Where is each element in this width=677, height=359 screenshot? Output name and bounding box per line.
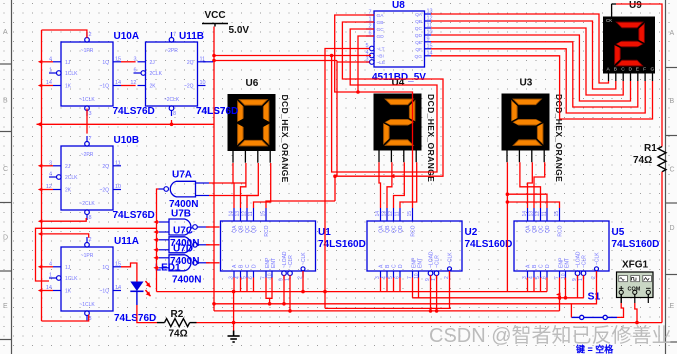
svg-text:14: 14 xyxy=(522,211,528,217)
svg-text:4: 4 xyxy=(49,172,52,178)
svg-text:~2Q: ~2Q xyxy=(99,188,109,194)
svg-text:CSDN @智者知已反修善业: CSDN @智者知已反修善业 xyxy=(429,324,672,347)
svg-text:QB: QB xyxy=(385,225,391,233)
wire: U9 CK pin up (black) then red across top to right rail x=662 xyxy=(611,4,613,17)
svg-text:D: D xyxy=(398,264,404,268)
NAND gate U7C 7400N xyxy=(159,237,210,253)
wire: chain 2Q node down x=337 to y=174.5 across to x=433 up to y=85 left to U8 GB xyxy=(337,22,443,176)
svg-text:14: 14 xyxy=(229,211,235,217)
wire: U4 display pins down to U2 inputs xyxy=(379,162,381,208)
wire: U10A pin3 down to U10B pin7 xyxy=(86,109,88,134)
svg-text:F: F xyxy=(643,67,646,73)
wire: flip-flop input stubs to left rail with arrows xyxy=(42,61,54,63)
svg-text:GA: GA xyxy=(377,13,385,19)
wire: U1 RCO up and right to drop x=335 xyxy=(266,201,335,208)
svg-text:R2: R2 xyxy=(171,309,184,320)
arrow marker on ENP riser xyxy=(557,296,562,300)
svg-text:U5: U5 xyxy=(612,227,625,238)
wire: LED cathode down to R2 xyxy=(137,305,157,323)
wire: R1 bottom to bottom bus xyxy=(661,176,663,323)
wire: ground tap on bottom bus xyxy=(233,323,235,331)
svg-text:1CLK: 1CLK xyxy=(65,276,78,282)
wire: U11B pin8 drop to bus y=124.3 xyxy=(171,120,173,124)
display U4 DCD_HEX_ORANGE showing 2 xyxy=(374,94,422,163)
svg-text:U6: U6 xyxy=(246,78,259,89)
wire: XFG1 + terminal down to switch right end xyxy=(620,294,622,303)
svg-text:ENT: ENT xyxy=(271,258,277,268)
wire: U8 QB to U9 segment B xyxy=(431,21,616,89)
svg-text:C: C xyxy=(539,264,545,268)
svg-text:14: 14 xyxy=(375,211,381,217)
NAND gate U7D 7400N xyxy=(159,255,210,271)
wire: U5 RCO left tap xyxy=(507,202,559,208)
svg-text:RCO: RCO xyxy=(558,225,564,236)
wire: drop x=335 from chain y=176.2 to RCO line xyxy=(334,176,336,201)
counter U1 74LS160D xyxy=(221,208,316,281)
LED LED1 symbol xyxy=(130,281,150,305)
svg-text:1: 1 xyxy=(49,273,52,279)
NAND gate U7A 7400N (mirrored) xyxy=(159,181,210,197)
svg-text:QC: QC xyxy=(392,225,398,233)
svg-text:U7C: U7C xyxy=(173,226,193,237)
svg-text:14: 14 xyxy=(115,285,121,291)
svg-text:U8: U8 xyxy=(392,0,405,11)
svg-text:10: 10 xyxy=(200,80,206,86)
svg-text:VCC: VCC xyxy=(204,10,225,21)
svg-text:15: 15 xyxy=(407,211,413,217)
svg-text:~2PR: ~2PR xyxy=(81,152,94,158)
wire: chain VCC node down x=331.6 to y=169 across to x=440 up to y=79 left to U8 GC xyxy=(332,29,437,172)
svg-text:6: 6 xyxy=(133,68,136,74)
svg-text:ENT: ENT xyxy=(565,258,571,268)
svg-text:1: 1 xyxy=(49,68,52,74)
svg-text:2: 2 xyxy=(89,32,92,38)
svg-text:B: B xyxy=(670,98,675,105)
svg-text:~2Q: ~2Q xyxy=(184,84,194,90)
svg-text:2CLK: 2CLK xyxy=(150,71,163,77)
svg-text:QD: QD xyxy=(252,225,258,233)
wire: bus y=297.8 (U2 ENP/ENT to U5 LOAD/CLR) xyxy=(413,297,584,299)
svg-text:~1PR: ~1PR xyxy=(81,48,94,54)
svg-text:C: C xyxy=(621,67,625,73)
svg-text:~2CLK: ~2CLK xyxy=(79,201,95,207)
wire: U10A 1Q to U11B 2J xyxy=(121,61,136,63)
wire: U6 display pins down to U1 inputs (crossover jogs) xyxy=(233,163,234,208)
svg-text:~2CLK: ~2CLK xyxy=(164,97,180,103)
flip-flop U10A 74LS76D xyxy=(46,32,121,117)
wire: U8 QD to U9 segment D xyxy=(431,35,631,101)
wire: U7A output rail left to x=35.5 then down to U11A clock xyxy=(36,228,157,281)
svg-text:7: 7 xyxy=(89,136,92,142)
wire: bus y=310.9 xyxy=(214,310,560,312)
svg-text:U7B: U7B xyxy=(171,209,191,220)
svg-text:A: A xyxy=(670,30,675,37)
wire: U3 display pins down to U5 inputs xyxy=(506,162,508,291)
wire: U8 GD left down to y=92 junction xyxy=(358,36,374,92)
IC U8 4511BD_5V BCD-to-7seg decoder xyxy=(365,9,432,68)
NAND gate U7B 7400N xyxy=(159,219,210,235)
svg-text:S1: S1 xyxy=(588,291,601,303)
svg-text:74LS160D: 74LS160D xyxy=(465,239,513,250)
switch S1 (space key) xyxy=(571,315,617,319)
svg-text:RCO: RCO xyxy=(264,225,270,236)
wire: bus y=124.3 from arrow to rail x=214 xyxy=(37,123,215,125)
wires: U1 bottom pins to buses xyxy=(233,278,235,292)
svg-text:GC: GC xyxy=(377,27,385,33)
svg-text:U10A: U10A xyxy=(114,31,140,42)
counter U5 74LS160D xyxy=(514,208,609,281)
wire: gate input stubs to rail x=156.5 with arrows xyxy=(157,221,159,223)
svg-text:~1Q: ~1Q xyxy=(99,289,109,295)
sheet border right xyxy=(666,0,677,354)
wire: node right to rail x=337 (U8 ~LE net) xyxy=(214,60,337,62)
svg-text:XFG1: XFG1 xyxy=(622,260,649,271)
wire: U11B 2Q stub extension to rail xyxy=(203,61,213,63)
svg-text:~BI: ~BI xyxy=(377,54,384,60)
counter U2 74LS160D xyxy=(367,208,462,281)
svg-text:A: A xyxy=(3,29,8,36)
wire: VCC rail x=214 down to bus y=310.9 xyxy=(213,27,215,311)
wire: rail to U11A preset pin 2 with arrow xyxy=(42,234,89,238)
svg-text:8: 8 xyxy=(89,215,92,221)
svg-text:B: B xyxy=(3,98,8,105)
svg-text:74Ω: 74Ω xyxy=(169,329,188,340)
svg-text:QB: QB xyxy=(415,19,422,25)
svg-text:QE: QE xyxy=(415,40,422,46)
svg-text:GD: GD xyxy=(377,34,385,40)
svg-text:U11A: U11A xyxy=(114,236,139,247)
svg-text:15: 15 xyxy=(554,211,560,217)
svg-text:74LS76D: 74LS76D xyxy=(113,210,155,221)
wire: U7A output rail x=156.5 down the gate column to bus y=291.6 xyxy=(157,189,159,292)
svg-text:~LT: ~LT xyxy=(377,47,385,53)
svg-text:U7D: U7D xyxy=(173,244,193,255)
wire: U7A input wires right to display nets xyxy=(209,182,246,184)
ground symbol xyxy=(228,331,240,343)
svg-text:74Ω: 74Ω xyxy=(633,155,652,166)
wire: U8 QA to U9 segment A xyxy=(431,14,609,83)
svg-text:2Q: 2Q xyxy=(187,60,194,66)
svg-text:QB: QB xyxy=(532,225,538,233)
svg-text:1Q: 1Q xyxy=(102,60,109,66)
svg-text:LED1: LED1 xyxy=(155,263,181,274)
svg-text:D: D xyxy=(3,235,8,242)
wire: U11A 1Q to LED anode (up-step) xyxy=(121,263,137,282)
svg-text:QC: QC xyxy=(415,26,423,32)
svg-text:C: C xyxy=(3,166,8,173)
wire: bus y=303.8 xyxy=(214,303,571,305)
svg-text:74LS76D: 74LS76D xyxy=(113,106,155,117)
wire: U8 GA left down x=334.7 across y=92 down x=412.5 to U2 RCO xyxy=(335,15,413,208)
svg-text:QC: QC xyxy=(245,225,251,233)
svg-text:1J: 1J xyxy=(65,60,71,66)
resistor R1 74ohm xyxy=(658,142,666,176)
svg-text:QA: QA xyxy=(232,225,238,233)
wire: bottom bus y=322.6 from R2 to right rail xyxy=(197,322,663,324)
wire: U8 QF to U9 segment F xyxy=(431,49,645,113)
wire: XFG1 COM terminal down to bottom bus xyxy=(635,303,637,323)
svg-text:11: 11 xyxy=(395,211,401,216)
svg-text:QD: QD xyxy=(398,225,404,233)
svg-text:~1CLK: ~1CLK xyxy=(79,302,95,308)
svg-text:7: 7 xyxy=(173,32,176,38)
svg-text:15: 15 xyxy=(261,211,267,217)
svg-text:7400N: 7400N xyxy=(172,275,201,286)
svg-text:12: 12 xyxy=(535,211,541,217)
svg-text:~1Q: ~1Q xyxy=(99,84,109,90)
svg-text:D: D xyxy=(545,264,551,268)
svg-text:~CLK: ~CLK xyxy=(301,252,307,265)
svg-text:8: 8 xyxy=(173,111,176,117)
svg-text:11: 11 xyxy=(542,211,548,216)
svg-text:E: E xyxy=(670,303,675,310)
svg-text:1CLK: 1CLK xyxy=(65,71,78,77)
wire: U8 QG to U9 segment G xyxy=(431,56,653,119)
svg-text:11: 11 xyxy=(115,160,121,166)
flip-flop U11B 74LS76D xyxy=(130,32,205,117)
svg-text:~2PR: ~2PR xyxy=(165,48,178,54)
display U9 red 7-segment showing 2 xyxy=(603,17,655,82)
svg-text:2K: 2K xyxy=(65,188,72,194)
svg-text:GB: GB xyxy=(377,20,384,26)
svg-text:15: 15 xyxy=(115,261,121,267)
svg-text:9: 9 xyxy=(427,36,430,42)
svg-text:RCO: RCO xyxy=(411,225,417,236)
svg-text:11: 11 xyxy=(248,211,254,216)
svg-text:~CLK: ~CLK xyxy=(595,252,601,265)
svg-text:1Q: 1Q xyxy=(102,265,109,271)
display U6 DCD_HEX_ORANGE showing 0 xyxy=(228,94,276,163)
svg-text:2CLK: 2CLK xyxy=(65,175,78,181)
svg-text:~CLR: ~CLR xyxy=(288,255,294,268)
wire: U10B pin8 down-left to rail with arrow xyxy=(42,218,87,221)
svg-text:QA: QA xyxy=(379,225,385,233)
svg-text:D: D xyxy=(252,264,258,268)
svg-text:74LS76D: 74LS76D xyxy=(196,106,238,117)
svg-text:12: 12 xyxy=(388,211,394,217)
svg-text:13: 13 xyxy=(529,211,535,217)
svg-text:D: D xyxy=(670,225,675,232)
svg-text:74LS160D: 74LS160D xyxy=(612,239,660,250)
svg-text:2Q: 2Q xyxy=(102,164,109,170)
svg-text:DCD_HEX_ORANGE: DCD_HEX_ORANGE xyxy=(280,95,290,183)
svg-text:QF: QF xyxy=(415,47,422,53)
svg-text:B: B xyxy=(614,67,617,73)
wires: U5 bottom pins to buses xyxy=(527,278,529,292)
wire: U8 ~LE pin left to rail x=337 xyxy=(337,61,370,63)
svg-text:2: 2 xyxy=(89,237,92,243)
wire: U5 CLK down-left to switch riser xyxy=(571,271,596,317)
svg-text:QA: QA xyxy=(415,12,423,18)
svg-text:1K: 1K xyxy=(65,289,72,295)
svg-text:15: 15 xyxy=(115,56,121,62)
svg-text:E: E xyxy=(3,303,8,310)
wire: U10A ~1Q to U11B 2K xyxy=(121,85,136,87)
svg-text:U11B: U11B xyxy=(179,31,204,42)
wires: U2 bottom pins to buses xyxy=(380,278,382,292)
svg-text:U3: U3 xyxy=(520,78,533,89)
svg-text:C: C xyxy=(392,264,398,268)
svg-text:~1CLK: ~1CLK xyxy=(79,97,95,103)
svg-text:5.0V: 5.0V xyxy=(229,25,250,36)
svg-text:E: E xyxy=(636,67,639,73)
svg-text:12: 12 xyxy=(242,211,248,217)
svg-text:3: 3 xyxy=(89,111,92,117)
svg-text:14: 14 xyxy=(115,80,121,86)
resistor R2 74ohm xyxy=(157,319,197,327)
svg-text:QB: QB xyxy=(239,225,245,233)
svg-text:U10B: U10B xyxy=(114,135,140,146)
svg-text:U2: U2 xyxy=(465,227,478,238)
svg-text:~CLK: ~CLK xyxy=(448,252,454,265)
wire: top wire to U10A preset pin 2 xyxy=(42,30,87,38)
svg-text:~LE: ~LE xyxy=(377,60,386,66)
svg-text:R1: R1 xyxy=(644,143,657,154)
svg-text:DCD_HEX_ORANGE: DCD_HEX_ORANGE xyxy=(426,94,436,182)
wire: U11A pin3 down-left to rail xyxy=(42,315,89,322)
svg-text:ENT: ENT xyxy=(418,258,424,268)
wire: VCC node right to U8 ~BI pin xyxy=(214,55,371,57)
sheet border left xyxy=(0,0,12,354)
wire: left rail x=41.5 xyxy=(41,30,43,321)
svg-text:QD: QD xyxy=(545,225,551,233)
svg-text:D: D xyxy=(629,67,633,73)
wire: bus y=291.6 from gate rail to U5 pins xyxy=(157,291,548,293)
svg-text:~1PR: ~1PR xyxy=(81,253,94,259)
svg-text:QC: QC xyxy=(539,225,545,233)
svg-text:C: C xyxy=(245,264,251,268)
svg-text:QD: QD xyxy=(415,33,423,39)
svg-text:2J: 2J xyxy=(65,164,71,170)
svg-text:QG: QG xyxy=(415,54,423,60)
svg-text:1J: 1J xyxy=(65,265,71,271)
svg-text:2K: 2K xyxy=(150,84,157,90)
wire: U8 QE to U9 segment E xyxy=(431,42,638,107)
svg-text:~CLR: ~CLR xyxy=(582,255,588,268)
wire: U8 QC to U9 segment C xyxy=(431,28,623,95)
svg-text:G: G xyxy=(651,67,655,73)
svg-text:13: 13 xyxy=(235,211,241,217)
svg-text:QA: QA xyxy=(526,225,532,233)
svg-text:1K: 1K xyxy=(65,84,72,90)
svg-text:C: C xyxy=(670,167,675,174)
wire: gate output stubs crossing rail x=213 xyxy=(206,226,220,228)
svg-text:CK: CK xyxy=(606,18,612,23)
svg-text:13: 13 xyxy=(382,211,388,217)
display U3 DCD_HEX_ORANGE showing 5 xyxy=(502,94,550,163)
function generator XFG1 xyxy=(617,272,654,303)
svg-text:U9: U9 xyxy=(629,0,642,11)
svg-text:10: 10 xyxy=(115,184,121,190)
flip-flop U10B 74LS76D xyxy=(46,136,121,221)
svg-text:2J: 2J xyxy=(150,60,156,66)
wire: U8 ~LT pin left and down rail x=325 xyxy=(325,49,370,309)
svg-text:~CLR: ~CLR xyxy=(435,255,441,268)
VCC power symbol 5.0V xyxy=(202,10,249,36)
flip-flop U11A 74LS76D xyxy=(46,237,121,322)
wire: bus y=308.4 (rail x=325 to U2 CLK) xyxy=(325,307,451,309)
svg-text:U7A: U7A xyxy=(172,170,192,181)
